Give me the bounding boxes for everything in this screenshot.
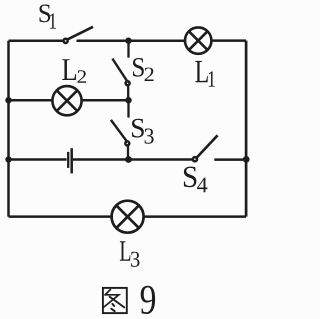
lamp L2 xyxy=(52,86,81,115)
wire L2 row right xyxy=(82,99,129,102)
switch S3 blade xyxy=(111,120,127,141)
wire top middle segment xyxy=(77,39,185,42)
battery short plate xyxy=(67,152,69,168)
label L1 subscript xyxy=(209,71,215,86)
caption character tu (figure) xyxy=(103,288,127,313)
node right battery junction xyxy=(243,156,250,163)
wire S2 pivot to L2 junction xyxy=(127,86,129,100)
wire battery row left xyxy=(9,158,67,161)
label L3 subscript xyxy=(131,252,140,267)
wire top left segment xyxy=(9,39,63,42)
wire S3 pivot to battery row xyxy=(127,146,129,160)
label S3 subscript xyxy=(145,129,154,144)
label S3 letter xyxy=(132,119,144,138)
switch S1 blade xyxy=(67,27,93,40)
wire bottom left segment xyxy=(9,215,112,218)
label S4 letter xyxy=(184,167,197,188)
wire bottom right segment xyxy=(144,215,246,218)
label L1 letter xyxy=(195,61,208,82)
label S1 letter xyxy=(40,5,51,23)
switch S1 pivot xyxy=(64,39,68,43)
wire left vertical xyxy=(7,41,10,217)
label S4 subscript xyxy=(197,178,207,193)
label L3 letter xyxy=(120,241,130,260)
switch S2 pivot xyxy=(126,81,130,85)
battery long plate xyxy=(70,148,73,173)
wire battery to S4 xyxy=(73,158,192,161)
node left L2 junction xyxy=(5,97,11,103)
node left battery junction xyxy=(5,156,11,162)
wire middle stub below top junction xyxy=(127,41,129,58)
wire top right segment xyxy=(212,39,247,42)
caption numeral 9 xyxy=(141,286,155,314)
wire middle stub below L2 junction xyxy=(127,100,129,117)
wire L2 row left xyxy=(9,99,53,102)
switch S3 pivot xyxy=(125,141,129,145)
label S1 subscript xyxy=(50,13,56,28)
node top junction xyxy=(125,38,131,44)
wire right vertical xyxy=(245,41,248,217)
node middle L2 junction xyxy=(125,97,131,103)
switch S2 blade xyxy=(112,59,127,82)
label L2 subscript xyxy=(78,70,87,83)
switch S4 blade xyxy=(197,135,218,157)
node middle battery junction xyxy=(125,156,132,163)
lamp L3 xyxy=(112,201,144,233)
wire S4 to right junction xyxy=(214,158,246,161)
label S2 subscript xyxy=(145,68,154,81)
switch S4 pivot xyxy=(193,157,197,161)
label L2 letter xyxy=(62,59,76,80)
lamp L1 xyxy=(185,27,211,53)
label S2 letter xyxy=(133,58,144,77)
